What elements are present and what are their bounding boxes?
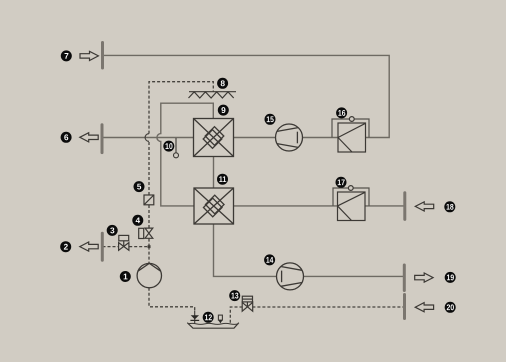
wire: hop of dashed line over main duct <box>145 134 149 142</box>
wall flange 6 <box>101 125 104 153</box>
wire: dashed water line wall 2 to valve 3 <box>103 246 120 248</box>
wire: bypass HX9 top to HX11 left (with hop over main line) <box>157 103 213 206</box>
sensor 10 (line with small circle) <box>175 138 177 153</box>
wall flange 19 <box>403 265 406 291</box>
wire: fan 14 to wall 19 <box>303 275 403 277</box>
label 8 <box>217 78 228 89</box>
valve 3 (with actuator box, in horizontal line) <box>119 235 129 250</box>
label 16 <box>336 107 347 118</box>
label 6 <box>61 132 72 143</box>
node: junction dot <box>148 245 151 248</box>
damper box 16 with actuator circle <box>332 117 369 152</box>
label 13 <box>229 290 240 301</box>
fan 14 (exhaust fan, mirrored) <box>277 263 304 290</box>
label 14 <box>264 254 275 265</box>
basin / tank 12 <box>187 323 239 329</box>
label 3 <box>107 225 118 236</box>
label 19 <box>445 272 456 283</box>
wire: HX11 bottom to fan 14 <box>214 224 277 276</box>
wire: dashed pump 1 to drain funnel <box>149 288 195 312</box>
heat exchanger HX9 (plate heat exchanger box) <box>194 119 234 157</box>
label 4 <box>132 215 143 226</box>
label 18 <box>444 201 455 212</box>
wire: dashed junction down to pump 1 <box>148 247 150 264</box>
wire: box 17 to wall 18 <box>365 205 404 207</box>
pump 1 <box>137 263 161 287</box>
label 12 <box>203 312 214 323</box>
arrow 6 (left, out of wall) <box>80 133 98 142</box>
wire: dashed basin to valve 13 <box>230 307 242 323</box>
wire: HX11 right to box 17 <box>234 205 338 207</box>
wall flange 20 <box>403 295 406 319</box>
label 17 <box>336 177 347 188</box>
valve 4 (with actuator box, in vertical dashed line) <box>139 228 153 238</box>
wall flange 2 <box>101 233 104 260</box>
arrow 19 (right) <box>415 273 433 282</box>
damper box 17 with actuator circle <box>333 186 369 221</box>
wall flange 7 <box>101 43 104 69</box>
damper box 5 (square with diagonal) <box>144 195 154 205</box>
wire: dashed junction up through valve4, box5, hop, to spray 8 <box>148 238 150 246</box>
water wavy line <box>188 323 238 324</box>
label 5 <box>134 181 145 192</box>
label 9 <box>218 105 229 116</box>
arrow 18 (left) <box>415 202 433 211</box>
wire: HX9 right to fan 15 <box>234 137 276 139</box>
wire: outdoor air duct from wall 7 to box 16 <box>103 55 389 137</box>
wire: dashed valve 13 to wall 20 <box>252 306 404 308</box>
wire: exhaust duct from wall 6 to HX9 <box>102 137 194 139</box>
label 15 <box>265 114 276 125</box>
spray humidifier 8 (bar with zigzag) <box>189 92 237 98</box>
label 2 <box>60 241 71 252</box>
arrow 2 (left) <box>80 242 98 251</box>
label 1 <box>120 271 131 282</box>
wall flange 18 <box>403 193 406 220</box>
heat exchanger HX11 <box>194 188 234 224</box>
wire: HX9 bottom to HX11 top <box>213 157 215 189</box>
label 7 <box>61 50 72 61</box>
wire: fan 15 to box 16 <box>303 137 339 139</box>
wire: dashed valve 3 to junction <box>129 246 149 248</box>
label 20 <box>445 302 456 313</box>
label 11 <box>217 174 228 185</box>
arrow 7 (right, into wall) <box>80 51 98 60</box>
arrow 20 (left) <box>415 303 433 312</box>
label 10 <box>163 141 174 152</box>
float device 12 <box>218 315 222 320</box>
valve 13 (with actuator box, in horizontal dashed line) <box>242 296 253 311</box>
drain funnel (filled) <box>194 311 196 324</box>
fan 15 (supply fan) <box>276 124 303 151</box>
